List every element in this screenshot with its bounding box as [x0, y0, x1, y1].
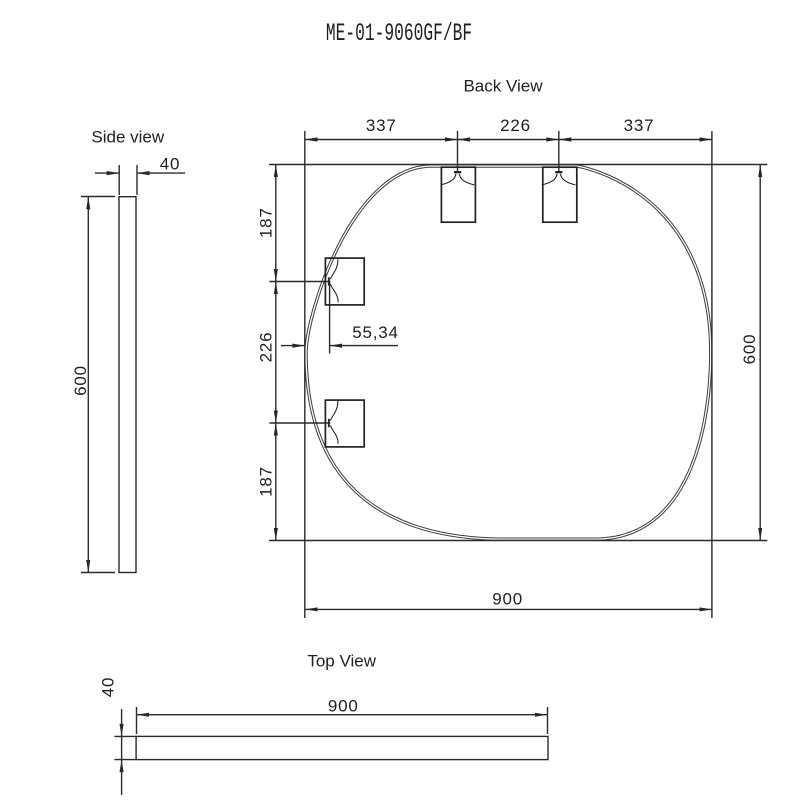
wire bottom dimension line	[305, 608, 712, 610]
wire 40 dim line right part	[137, 172, 185, 174]
wire 900 ext left	[136, 707, 138, 734]
svg-text:40: 40	[99, 677, 118, 698]
svg-text:ME-01-9060GF/BF: ME-01-9060GF/BF	[326, 20, 472, 48]
mirror outline outer curve	[305, 165, 712, 540]
bracket B2 top-right square	[543, 167, 577, 222]
hook of bracket B1	[328, 171, 575, 444]
svg-text:Back View: Back View	[463, 77, 543, 96]
mirror outline inner curve	[307, 167, 709, 538]
wire top dimension line	[305, 139, 712, 141]
wire bottom edge line	[269, 540, 767, 542]
wire 55,34 dim line right	[330, 345, 398, 347]
wire 40 dim vertical top view	[121, 709, 123, 795]
wire right extension line	[711, 131, 713, 618]
wire left extension line	[304, 131, 306, 618]
wire pointer line hook4	[269, 422, 330, 424]
svg-text:900: 900	[492, 590, 523, 609]
side view rectangle	[119, 197, 136, 573]
wire 55,34 dim line left	[281, 345, 305, 347]
svg-text:187: 187	[257, 466, 276, 497]
svg-text:55,34: 55,34	[352, 323, 399, 342]
hook of bracket B3	[328, 259, 338, 302]
svg-text:600: 600	[740, 334, 759, 365]
wire 40 ext upper	[114, 735, 136, 737]
svg-text:Top View: Top View	[307, 652, 376, 671]
side view group	[81, 128, 185, 573]
svg-text:226: 226	[257, 332, 276, 363]
hook of bracket B2	[542, 171, 576, 185]
svg-text:337: 337	[366, 116, 397, 135]
wire 600 ext bottom	[81, 572, 115, 574]
svg-text:Side view: Side view	[91, 128, 164, 147]
top view rectangle	[136, 736, 548, 759]
wire 40 ext lower	[114, 759, 136, 761]
wire 40 dim line left part	[95, 172, 119, 174]
svg-text:226: 226	[500, 116, 531, 135]
wire 900 dim line top view	[137, 714, 548, 716]
svg-text:600: 600	[71, 365, 90, 396]
arrowheads	[305, 137, 318, 141]
hook of bracket B4	[328, 401, 338, 444]
wire 40 extension line left	[118, 165, 120, 195]
wire hook2 extension line	[558, 131, 560, 171]
wire 600 dim line side	[87, 197, 89, 573]
bracket B3 side-upper square	[325, 258, 364, 305]
wire 40 extension line right	[136, 165, 138, 195]
arrows group	[86, 137, 762, 772]
wire hook1 extension line	[457, 131, 459, 171]
bracket B1 top-left square	[325, 167, 576, 447]
wire left dimension line	[275, 165, 277, 541]
svg-text:900: 900	[328, 697, 359, 716]
bracket B4 side-lower square	[325, 400, 364, 447]
svg-text:337: 337	[624, 116, 655, 135]
wire 900 ext right	[547, 707, 549, 734]
wire pointer line hook3	[269, 281, 330, 283]
svg-text:187: 187	[257, 207, 276, 238]
wire top edge line	[269, 164, 767, 166]
wire 600 ext top	[81, 196, 115, 198]
svg-text:40: 40	[160, 155, 181, 174]
wire hook3 extension line vertical	[329, 282, 331, 354]
top view group	[114, 652, 548, 796]
wire right dimension line	[759, 165, 761, 541]
